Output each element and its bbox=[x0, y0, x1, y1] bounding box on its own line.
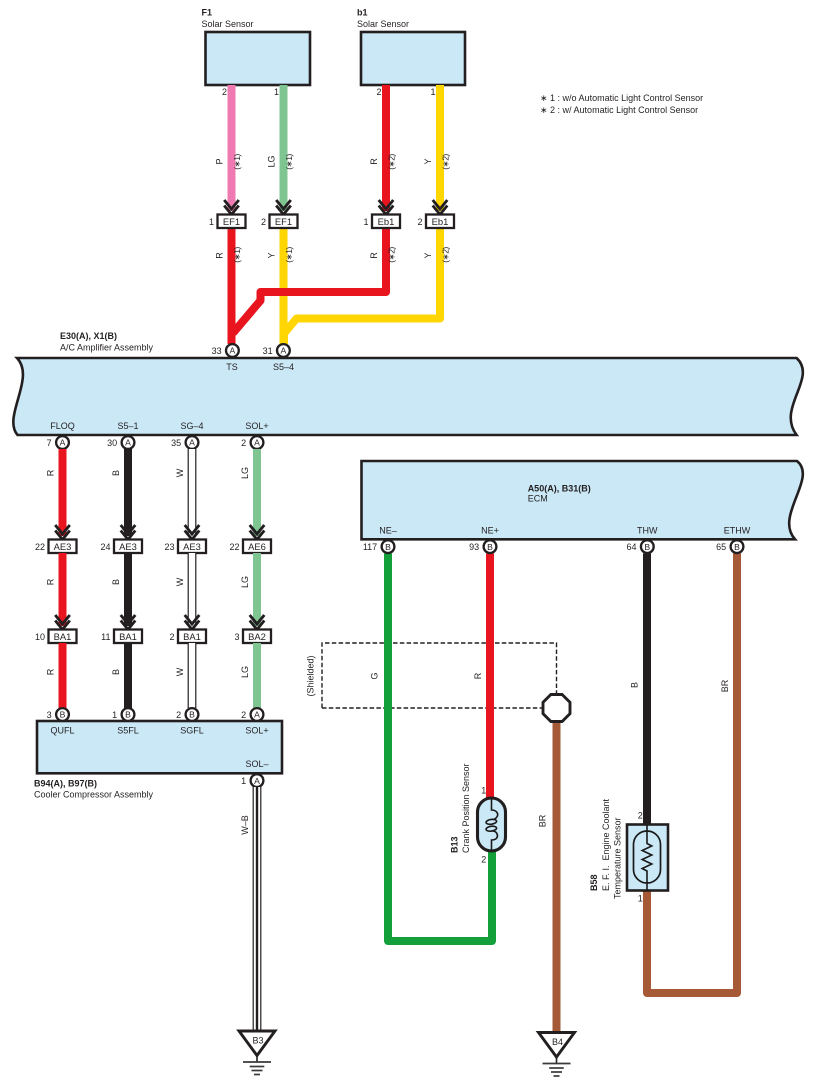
svg-text:R: R bbox=[46, 469, 56, 476]
svg-text:1: 1 bbox=[638, 894, 643, 904]
svg-text:22: 22 bbox=[229, 542, 239, 552]
svg-text:EF1: EF1 bbox=[275, 216, 292, 227]
svg-text:1: 1 bbox=[209, 217, 214, 227]
svg-text:Y: Y bbox=[423, 158, 433, 164]
svg-text:THW: THW bbox=[637, 526, 658, 536]
svg-text:11: 11 bbox=[101, 632, 110, 642]
svg-text:2: 2 bbox=[481, 855, 486, 865]
svg-text:B: B bbox=[630, 682, 640, 688]
svg-text:ECM: ECM bbox=[528, 494, 548, 504]
svg-text:FLOQ: FLOQ bbox=[50, 421, 75, 431]
svg-text:P: P bbox=[215, 158, 225, 164]
svg-text:W: W bbox=[175, 667, 185, 676]
svg-text:(∗2): (∗2) bbox=[387, 154, 397, 170]
svg-text:B94(A), B97(B): B94(A), B97(B) bbox=[34, 779, 97, 789]
svg-text:W: W bbox=[175, 577, 185, 586]
svg-text:Crank Position Sensor: Crank Position Sensor bbox=[461, 763, 471, 853]
svg-text:1: 1 bbox=[274, 87, 279, 97]
svg-text:B: B bbox=[111, 579, 121, 585]
svg-text:S5FL: S5FL bbox=[117, 726, 139, 736]
svg-text:EF1: EF1 bbox=[223, 216, 240, 227]
svg-text:E. F. I. Engine Coolant: E. F. I. Engine Coolant bbox=[601, 798, 611, 891]
svg-text:33: 33 bbox=[212, 346, 222, 356]
svg-text:A/C Amplifier Assembly: A/C Amplifier Assembly bbox=[60, 343, 154, 353]
svg-text:3: 3 bbox=[234, 632, 239, 642]
svg-text:B4: B4 bbox=[552, 1037, 563, 1047]
svg-text:R: R bbox=[473, 672, 483, 679]
svg-text:∗ 1 : w/o Automatic Light Cont: ∗ 1 : w/o Automatic Light Control Sensor bbox=[540, 93, 703, 103]
svg-text:R: R bbox=[369, 158, 379, 165]
svg-text:R: R bbox=[46, 578, 56, 585]
svg-text:B: B bbox=[734, 542, 740, 552]
svg-text:B: B bbox=[60, 710, 66, 720]
svg-text:2: 2 bbox=[169, 632, 174, 642]
svg-text:AE3: AE3 bbox=[54, 541, 72, 552]
svg-text:A: A bbox=[230, 346, 236, 356]
svg-text:B: B bbox=[111, 669, 121, 675]
svg-text:30: 30 bbox=[107, 438, 117, 448]
svg-text:(∗1): (∗1) bbox=[284, 154, 294, 170]
svg-text:2: 2 bbox=[222, 87, 227, 97]
svg-text:BR: BR bbox=[538, 814, 548, 827]
svg-text:B3: B3 bbox=[252, 1036, 263, 1046]
svg-text:AE3: AE3 bbox=[183, 541, 201, 552]
svg-text:(∗1): (∗1) bbox=[232, 247, 242, 263]
svg-text:BA1: BA1 bbox=[54, 631, 72, 642]
svg-text:A: A bbox=[125, 438, 131, 448]
svg-text:b1: b1 bbox=[357, 8, 368, 18]
svg-text:B: B bbox=[189, 710, 195, 720]
svg-text:2: 2 bbox=[417, 217, 422, 227]
svg-text:LG: LG bbox=[240, 666, 250, 678]
svg-text:1: 1 bbox=[363, 217, 368, 227]
svg-text:A: A bbox=[60, 438, 66, 448]
svg-text:QUFL: QUFL bbox=[50, 726, 74, 736]
svg-text:2: 2 bbox=[261, 217, 266, 227]
svg-text:23: 23 bbox=[164, 542, 174, 552]
svg-text:S5–1: S5–1 bbox=[117, 421, 138, 431]
svg-text:7: 7 bbox=[47, 438, 52, 448]
svg-text:LG: LG bbox=[240, 467, 250, 479]
svg-text:Y: Y bbox=[267, 252, 277, 258]
svg-text:117: 117 bbox=[363, 542, 377, 552]
svg-text:B: B bbox=[644, 542, 650, 552]
svg-text:1: 1 bbox=[241, 776, 246, 786]
svg-text:R: R bbox=[369, 252, 379, 259]
svg-text:2: 2 bbox=[241, 710, 246, 720]
svg-text:B58: B58 bbox=[589, 874, 599, 891]
svg-text:31: 31 bbox=[263, 346, 273, 356]
svg-text:(∗2): (∗2) bbox=[441, 247, 451, 263]
svg-text:(∗1): (∗1) bbox=[232, 154, 242, 170]
svg-text:3: 3 bbox=[47, 710, 52, 720]
svg-text:Solar Sensor: Solar Sensor bbox=[202, 19, 254, 29]
svg-text:E30(A), X1(B): E30(A), X1(B) bbox=[60, 331, 117, 341]
svg-text:B: B bbox=[385, 542, 391, 552]
svg-text:SGFL: SGFL bbox=[180, 726, 204, 736]
svg-text:R: R bbox=[46, 668, 56, 675]
svg-text:A: A bbox=[281, 346, 287, 356]
svg-text:2: 2 bbox=[241, 438, 246, 448]
svg-text:F1: F1 bbox=[202, 8, 213, 18]
svg-text:35: 35 bbox=[171, 438, 181, 448]
svg-text:AE3: AE3 bbox=[119, 541, 137, 552]
svg-text:Y: Y bbox=[423, 252, 433, 258]
svg-text:SOL+: SOL+ bbox=[245, 726, 268, 736]
svg-text:B: B bbox=[487, 542, 493, 552]
svg-text:BA2: BA2 bbox=[248, 631, 266, 642]
svg-text:B: B bbox=[125, 710, 131, 720]
svg-text:NE+: NE+ bbox=[481, 526, 499, 536]
svg-text:2: 2 bbox=[638, 811, 643, 821]
svg-text:SOL+: SOL+ bbox=[245, 421, 268, 431]
svg-text:A: A bbox=[254, 776, 260, 786]
svg-text:SG–4: SG–4 bbox=[180, 421, 203, 431]
svg-text:64: 64 bbox=[626, 542, 636, 552]
svg-text:1: 1 bbox=[481, 786, 486, 796]
svg-text:(Shielded): (Shielded) bbox=[306, 655, 316, 696]
svg-text:Temperature Sensor: Temperature Sensor bbox=[613, 817, 623, 899]
svg-text:24: 24 bbox=[100, 542, 110, 552]
svg-text:BA1: BA1 bbox=[119, 631, 137, 642]
svg-text:B13: B13 bbox=[450, 836, 460, 853]
svg-text:22: 22 bbox=[35, 542, 45, 552]
svg-text:Eb1: Eb1 bbox=[432, 216, 449, 227]
svg-text:SOL–: SOL– bbox=[245, 759, 268, 769]
svg-text:A50(A), B31(B): A50(A), B31(B) bbox=[528, 484, 591, 494]
svg-text:93: 93 bbox=[469, 542, 479, 552]
svg-text:2: 2 bbox=[376, 87, 381, 97]
svg-text:LG: LG bbox=[267, 155, 277, 167]
svg-text:W–B: W–B bbox=[240, 815, 250, 835]
svg-text:65: 65 bbox=[716, 542, 726, 552]
svg-text:B: B bbox=[111, 470, 121, 476]
svg-text:10: 10 bbox=[35, 632, 45, 642]
svg-text:A: A bbox=[254, 438, 260, 448]
svg-text:A: A bbox=[254, 710, 260, 720]
svg-text:G: G bbox=[370, 672, 380, 679]
svg-text:(∗2): (∗2) bbox=[387, 247, 397, 263]
svg-text:2: 2 bbox=[176, 710, 181, 720]
svg-text:A: A bbox=[189, 438, 195, 448]
svg-text:R: R bbox=[215, 252, 225, 259]
svg-text:LG: LG bbox=[240, 576, 250, 588]
svg-text:Eb1: Eb1 bbox=[378, 216, 395, 227]
svg-text:ETHW: ETHW bbox=[724, 526, 751, 536]
svg-text:∗ 2 : w/ Automatic Light Contr: ∗ 2 : w/ Automatic Light Control Sensor bbox=[540, 105, 698, 115]
svg-text:Cooler Compressor Assembly: Cooler Compressor Assembly bbox=[34, 789, 154, 799]
svg-text:BA1: BA1 bbox=[183, 631, 201, 642]
svg-text:TS: TS bbox=[226, 362, 238, 372]
svg-text:1: 1 bbox=[112, 710, 117, 720]
svg-text:S5–4: S5–4 bbox=[273, 362, 294, 372]
svg-text:W: W bbox=[175, 468, 185, 477]
svg-text:(∗2): (∗2) bbox=[441, 154, 451, 170]
svg-text:Solar Sensor: Solar Sensor bbox=[357, 19, 409, 29]
svg-text:(∗1): (∗1) bbox=[284, 247, 294, 263]
svg-text:NE–: NE– bbox=[379, 526, 397, 536]
svg-text:AE6: AE6 bbox=[248, 541, 266, 552]
svg-text:BR: BR bbox=[720, 679, 730, 692]
svg-text:1: 1 bbox=[430, 87, 435, 97]
